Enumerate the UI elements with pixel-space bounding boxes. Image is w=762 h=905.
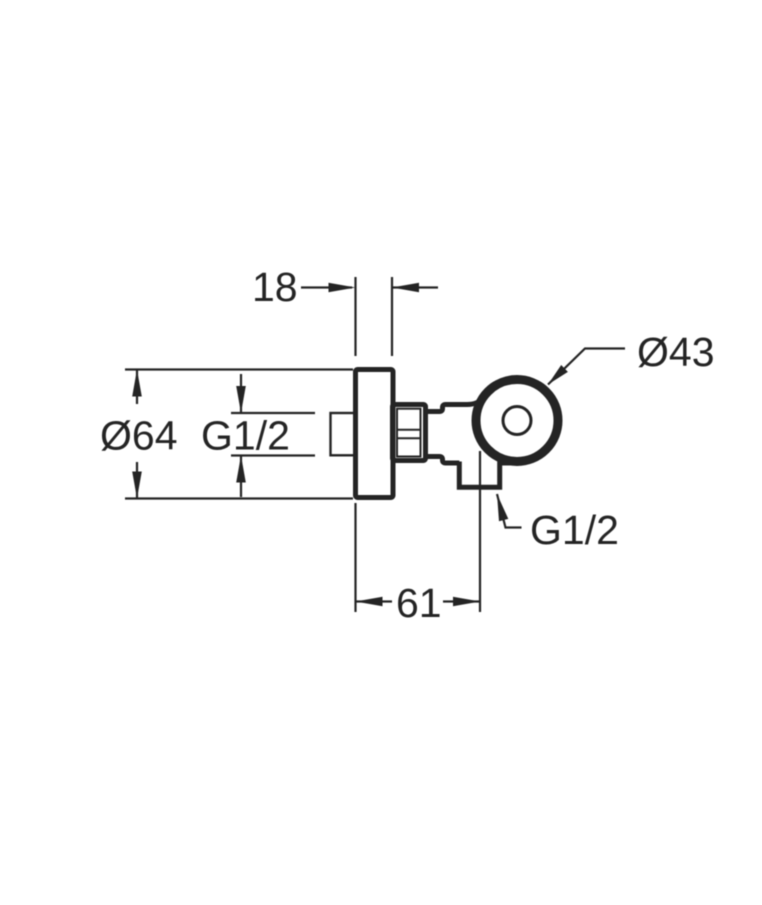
- svg-text:61: 61: [396, 580, 442, 626]
- dim 61: extension line left: [354, 503, 356, 612]
- dim Ø64: arrow down: [132, 472, 142, 499]
- inlet pipe (rear, thin outline): [331, 413, 356, 455]
- dim Ø64: arrow up: [132, 370, 142, 397]
- dim 61: dimension line right segment: [443, 600, 480, 602]
- leader G1/2 outlet: polyline: [497, 494, 522, 528]
- wall flange: [356, 370, 394, 498]
- dim Ø64: dimension line upper segment: [136, 370, 138, 405]
- svg-text:Ø64: Ø64: [100, 413, 178, 459]
- dim Ø64: dimension line lower segment: [136, 462, 138, 499]
- dim G1/2 inlet: extension line top: [231, 412, 315, 414]
- leader Ø43: arrowhead: [548, 365, 568, 385]
- dim Ø64: extension line bottom: [125, 497, 353, 499]
- svg-text:G1/2: G1/2: [201, 413, 290, 459]
- dim 18: arrow pointing right: [329, 283, 356, 293]
- center hole: [503, 407, 531, 435]
- dim G1/2 inlet: arrow up: [236, 456, 246, 483]
- collar and body neck bottom contour: [424, 457, 459, 464]
- nut facet line lower: [396, 437, 422, 439]
- dim 18: extension line left: [354, 277, 356, 356]
- nut (outer): [393, 405, 426, 461]
- svg-text:G1/2: G1/2: [530, 507, 619, 553]
- dim 61: arrow pointing right: [453, 597, 480, 607]
- dim 61: dimension line left segment: [356, 600, 393, 602]
- dim 18: arrow pointing left: [392, 283, 419, 293]
- dim 18: dimension line right segment: [392, 286, 438, 288]
- nut chamfer inner rect: [397, 409, 421, 457]
- leader G1/2 outlet: arrowhead: [497, 494, 508, 521]
- svg-text:Ø43: Ø43: [637, 329, 715, 375]
- outlet port G1/2: [459, 462, 499, 488]
- collar and body neck top contour: [424, 397, 484, 412]
- dim Ø64: extension line top: [125, 368, 353, 370]
- leader Ø43: polyline: [548, 349, 625, 385]
- dim G1/2 inlet: lower dimension line: [240, 456, 242, 498]
- valve body circle Ø43: [476, 380, 558, 462]
- dim 61: extension line right: [479, 451, 481, 612]
- dim 18: dimension line left segment: [301, 286, 352, 288]
- dim 61: arrow pointing left: [356, 597, 383, 607]
- dim G1/2 inlet: arrow down: [236, 386, 246, 413]
- dim 18: extension line right: [391, 277, 393, 356]
- svg-text:18: 18: [252, 264, 298, 310]
- body bottom edge right of outlet: [500, 461, 518, 466]
- dim G1/2 inlet: upper dimension line: [240, 374, 242, 413]
- nut facet line upper: [396, 429, 422, 431]
- dim G1/2 inlet: extension line bottom: [231, 454, 315, 456]
